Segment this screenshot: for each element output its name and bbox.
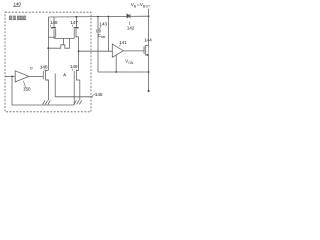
leader of label 150	[23, 81, 25, 88]
junction dot source node	[148, 71, 150, 73]
svg-text:147: 147	[70, 20, 78, 26]
ground GND2	[74, 101, 82, 105]
svg-text:146: 146	[50, 20, 58, 26]
wire to driver input	[79, 50, 113, 52]
junction dot level-shifter output	[78, 50, 80, 52]
junction dot feedback	[115, 71, 117, 73]
bootstrap return wire	[98, 71, 149, 73]
diode D142 cathode bar	[129, 14, 131, 18]
leader of 145	[92, 94, 96, 96]
underline of 140	[13, 6, 20, 8]
Q149 source stem to ground	[79, 80, 81, 100]
leader of label 148	[43, 69, 46, 70]
transistor Q148	[43, 70, 48, 81]
amp supply drop	[107, 17, 109, 52]
label 141	[119, 40, 127, 46]
junction dot cap rail	[97, 16, 99, 18]
transistor Q146	[48, 17, 56, 38]
label 144	[144, 38, 152, 44]
output terminal dot	[148, 90, 150, 92]
Q147 drain drop to Q149	[78, 37, 80, 71]
junction dot Q147 rail	[76, 16, 78, 18]
transistor Q144	[144, 45, 149, 56]
label 143	[99, 22, 107, 28]
leader of 142	[128, 21, 131, 25]
gate bus riser	[69, 38, 71, 48]
junction dot node A on gate bus	[47, 47, 49, 49]
transistor Q149	[74, 70, 80, 81]
ground GND1	[43, 101, 51, 105]
capacitor C143 top lead	[97, 17, 99, 30]
svg-text:142: 142	[127, 26, 135, 32]
label 140 (block reference, underlined)	[13, 2, 21, 8]
label Cbst	[98, 33, 106, 39]
leader of label 149	[71, 69, 73, 71]
diode D142	[127, 14, 130, 18]
Q144 channel continuation	[148, 45, 150, 55]
leader of label 147	[71, 25, 74, 27]
buffer output wire	[123, 50, 144, 52]
label 148	[40, 65, 48, 71]
leader of label 146	[49, 25, 52, 27]
leader of 143	[99, 26, 101, 29]
svg-text:144: 144	[144, 38, 152, 44]
capacitor C143 bottom lead	[97, 32, 99, 72]
gate link horizontal	[54, 37, 74, 39]
svg-text:BST: BST	[143, 4, 150, 8]
label 150	[23, 87, 31, 93]
junction dot amp supply rail	[108, 16, 110, 18]
node VB text top right	[131, 2, 151, 8]
inverter output wire	[29, 75, 43, 77]
feedback riser to buffer underside	[115, 55, 117, 72]
junction dot input	[11, 76, 13, 78]
riser to Q149 gate	[73, 79, 75, 105]
label 142	[127, 26, 135, 32]
input branch down and across	[12, 76, 74, 105]
inverter U150	[15, 71, 29, 82]
svg-text:149: 149	[70, 64, 78, 70]
node A main vertical (rail corner down to Q148 drain)	[47, 17, 49, 70]
label 149	[70, 64, 78, 70]
net mark f2 at inverter output	[30, 66, 33, 70]
junction dot output rail	[148, 15, 150, 17]
label 147	[70, 20, 78, 26]
svg-text:145: 145	[95, 92, 103, 98]
Q144 drain riser to rail	[148, 16, 150, 45]
Q148 source stem to ground	[48, 80, 50, 100]
svg-text:150: 150	[23, 87, 31, 93]
svg-text:f2: f2	[30, 66, 33, 70]
leader of 141	[119, 44, 120, 46]
dashed enclosure box	[5, 12, 91, 112]
mirror branch vertical through hump	[63, 38, 65, 44]
input wire	[5, 75, 15, 77]
stub from VB text to rail	[148, 9, 150, 16]
korean block title text	[9, 16, 26, 20]
Q144 source drop	[148, 55, 150, 91]
label 146	[50, 20, 58, 26]
buffer U141	[112, 44, 123, 57]
top supply rail	[48, 15, 149, 18]
transistor Q147	[74, 17, 79, 39]
node wire to box edge	[55, 74, 93, 97]
capacitor C143 plates	[96, 29, 101, 31]
svg-text:bst: bst	[101, 35, 105, 39]
net mark A on mirror branch	[63, 74, 66, 77]
gate bus wire with crossover hump	[48, 45, 69, 48]
label 145 at box edge	[95, 92, 103, 98]
svg-text:GN,: GN,	[128, 61, 134, 65]
label VGN	[125, 58, 134, 64]
